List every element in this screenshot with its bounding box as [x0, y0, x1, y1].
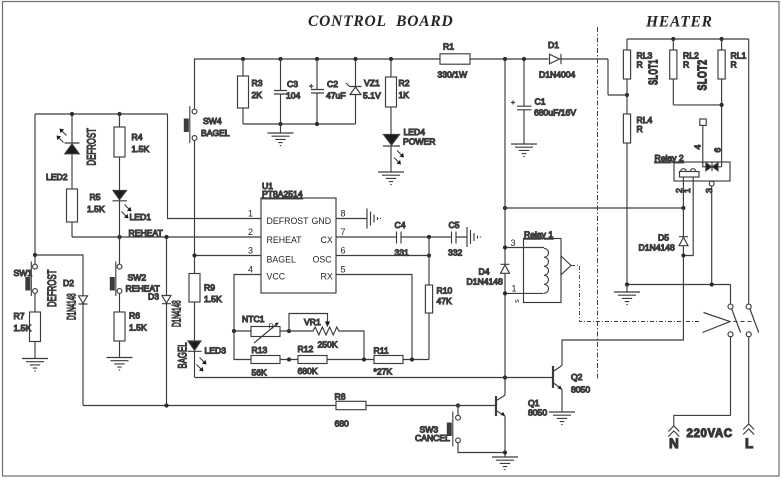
svg-text:D5: D5	[658, 233, 669, 243]
wire U1 pin5 RX	[336, 275, 412, 360]
resistor R11	[374, 346, 430, 377]
svg-text:LED3: LED3	[205, 346, 227, 356]
op-amp U1 PT8A2514 box	[261, 181, 336, 293]
svg-text:DEFROST: DEFROST	[86, 128, 99, 165]
relay2 contact arrows	[703, 126, 722, 171]
terminal N	[668, 415, 730, 451]
node bus junction dots	[241, 57, 629, 97]
svg-text:R6: R6	[129, 311, 140, 321]
svg-text:R11: R11	[374, 346, 389, 356]
diode D3	[148, 237, 171, 406]
svg-text:8050: 8050	[528, 408, 547, 418]
diode D2	[35, 255, 88, 406]
ground (Q1 emitter)	[492, 453, 518, 470]
wire left feed line	[35, 114, 168, 255]
svg-text:R13: R13	[252, 345, 268, 355]
svg-text:R: R	[731, 60, 737, 70]
svg-text:s: s	[512, 299, 521, 303]
resistor RL4	[623, 95, 652, 285]
ground (pin8, sideways)	[367, 209, 381, 229]
resistor R3	[238, 59, 263, 124]
ground (supply rail)	[268, 124, 294, 146]
svg-text:8: 8	[341, 209, 346, 219]
svg-text:2: 2	[248, 227, 253, 237]
wire top supply bus	[196, 59, 627, 95]
svg-text:DEFROST: DEFROST	[267, 216, 310, 226]
LED2	[46, 114, 80, 189]
svg-text:6: 6	[341, 246, 346, 256]
svg-text:1.5K: 1.5K	[204, 294, 222, 304]
svg-text:*27K: *27K	[374, 367, 393, 377]
switch SW4	[184, 59, 230, 254]
wire +V column x=505	[504, 59, 506, 395]
relay1 coil	[505, 248, 549, 294]
svg-text:VCC: VCC	[267, 272, 286, 282]
svg-text:Q2: Q2	[571, 372, 583, 382]
svg-text:8050: 8050	[571, 385, 590, 395]
svg-text:R: R	[637, 60, 643, 70]
svg-text:SLOT1: SLOT1	[646, 59, 661, 85]
svg-text:LED4: LED4	[404, 127, 426, 137]
svg-text:POWER: POWER	[403, 137, 435, 147]
resistor R13	[251, 345, 298, 378]
svg-text:Q1: Q1	[528, 398, 540, 408]
wire Q2 base line	[195, 377, 553, 379]
svg-text:7: 7	[341, 227, 346, 237]
relay1 actuator triangle	[561, 256, 571, 275]
svg-text:N: N	[669, 436, 679, 451]
svg-text:1.5K: 1.5K	[129, 323, 147, 333]
svg-text:R8: R8	[335, 392, 346, 402]
svg-text:R: R	[683, 60, 689, 70]
svg-text:47uF: 47uF	[326, 91, 346, 101]
svg-text:R3: R3	[252, 78, 263, 88]
svg-text:1: 1	[248, 209, 253, 219]
svg-text:D1N4148: D1N4148	[66, 293, 78, 320]
svg-text:BAGEL: BAGEL	[177, 342, 190, 368]
capacitor C5	[429, 220, 467, 258]
svg-text:R2: R2	[399, 78, 410, 88]
svg-text:2K: 2K	[252, 90, 263, 100]
diode D4	[467, 248, 510, 294]
svg-text:C3: C3	[287, 79, 298, 89]
svg-text:CANCEL: CANCEL	[415, 433, 450, 443]
svg-text:SW4: SW4	[203, 116, 222, 126]
svg-text:1.5K: 1.5K	[132, 144, 150, 154]
wire U1 pin3 BAGEL	[195, 255, 262, 257]
switch SW1	[14, 255, 38, 312]
svg-text:D4: D4	[479, 267, 490, 277]
ground (C5, sideways)	[467, 227, 481, 247]
svg-text:LED1: LED1	[130, 212, 152, 222]
terminal square relay2 pin4	[700, 119, 706, 125]
svg-text:L: L	[745, 436, 753, 451]
relay U2 Relay2 box	[655, 153, 731, 181]
svg-text:R5: R5	[90, 192, 101, 202]
svg-text:Relay 1: Relay 1	[524, 229, 553, 239]
wire relay2 coil to Q2 collector	[562, 256, 683, 366]
pin labels relay1	[511, 238, 522, 303]
wire VCC branch down to R13	[234, 331, 251, 360]
svg-text:CONTROL BOARD: CONTROL BOARD	[308, 13, 454, 30]
svg-text:D3: D3	[148, 292, 159, 302]
resistor R2	[386, 59, 410, 107]
wire U1 pin7 CX	[336, 236, 396, 238]
wire neutral rail	[627, 284, 731, 286]
svg-text:47K: 47K	[437, 296, 453, 306]
switch SW3	[415, 406, 505, 453]
svg-text:5: 5	[341, 265, 346, 275]
svg-text:GND: GND	[312, 216, 332, 226]
svg-text:4: 4	[248, 265, 253, 275]
diode D5	[639, 208, 689, 256]
svg-text:3: 3	[511, 238, 516, 248]
svg-text:BAGEL: BAGEL	[201, 128, 230, 138]
wire relay2 pin1	[684, 181, 694, 256]
svg-text:332: 332	[448, 248, 463, 258]
svg-text:HEATER: HEATER	[645, 14, 713, 31]
ground (C1)	[511, 144, 537, 157]
svg-text:D1N4004: D1N4004	[539, 70, 576, 80]
ground (R7)	[22, 342, 48, 372]
resistor R8	[335, 392, 367, 429]
board/heater dashed separator	[597, 27, 599, 379]
switch SW2	[110, 237, 161, 312]
capacitor C2	[309, 59, 346, 124]
resistor R5	[67, 189, 105, 237]
svg-text:R7: R7	[14, 311, 25, 321]
svg-text:BAGEL: BAGEL	[267, 255, 296, 265]
wire U1 pin8 GND	[336, 218, 367, 220]
svg-text:OSC: OSC	[313, 255, 333, 265]
wire heater top bus	[627, 38, 749, 40]
resistor RL3	[623, 39, 652, 95]
relay K1 Relay1 box	[524, 229, 562, 302]
svg-text:NTC1: NTC1	[242, 314, 265, 324]
svg-text:REHEAT: REHEAT	[129, 228, 164, 238]
wire U1 pin1 DEFROST	[168, 114, 262, 219]
svg-text:C1: C1	[535, 97, 546, 107]
ground (RL4 / neutral)	[614, 285, 640, 305]
svg-text:REHEAT: REHEAT	[267, 235, 303, 245]
thermistor NTC1	[234, 314, 289, 343]
switch DPST mains left pole	[728, 285, 741, 416]
resistor RL1	[718, 39, 746, 167]
relay2 pin3 circle	[709, 181, 714, 284]
svg-text:D1N4148: D1N4148	[171, 300, 183, 327]
svg-text:250K: 250K	[318, 340, 338, 350]
wire relay2 pin2	[682, 181, 684, 208]
svg-text:1K: 1K	[399, 90, 410, 100]
svg-text:3: 3	[704, 188, 714, 193]
svg-text:SW1: SW1	[14, 268, 33, 278]
diode D1	[539, 40, 576, 80]
svg-text:6: 6	[713, 148, 723, 153]
U1 pin numbers	[248, 209, 346, 275]
wire U1 pin4 VCC	[234, 275, 261, 332]
resistor R6	[114, 311, 147, 342]
svg-text:VR1: VR1	[304, 317, 321, 327]
wire U1 pin6 OSC	[336, 255, 429, 257]
svg-text:R12: R12	[298, 344, 314, 354]
resistor R10	[425, 237, 452, 360]
svg-text:R: R	[269, 322, 275, 331]
svg-text:R: R	[637, 124, 643, 134]
svg-text:PT8A2514: PT8A2514	[262, 189, 303, 199]
svg-text:R9: R9	[204, 283, 215, 293]
svg-text:5.1V: 5.1V	[363, 91, 381, 101]
svg-text:220VAC: 220VAC	[687, 428, 733, 440]
LED4	[383, 107, 435, 172]
svg-text:104: 104	[286, 91, 301, 101]
resistor R1	[438, 42, 471, 80]
svg-text:3: 3	[248, 246, 253, 256]
svg-text:SLOT2: SLOT2	[696, 59, 710, 90]
svg-text:R4: R4	[132, 132, 143, 142]
resistor R4	[114, 114, 149, 190]
resistor R9	[189, 256, 222, 342]
svg-text:CX: CX	[321, 235, 333, 245]
ground (R6)	[107, 341, 133, 370]
svg-text:Relay 2: Relay 2	[655, 153, 684, 163]
svg-text:1.5K: 1.5K	[14, 323, 32, 333]
relay2 coils	[680, 169, 700, 181]
capacitor C3	[274, 59, 301, 124]
svg-text:DEFROST: DEFROST	[47, 270, 60, 307]
svg-text:1.5K: 1.5K	[87, 204, 105, 214]
ground (Q2 emitter)	[549, 412, 575, 425]
svg-text:D2: D2	[63, 278, 74, 288]
svg-text:1: 1	[512, 284, 517, 294]
resistor RL2	[670, 39, 722, 105]
resistor R7	[14, 311, 41, 342]
wire U1 pin2 REHEAT	[72, 236, 261, 238]
potentiometer VR1	[289, 314, 364, 360]
transistor Q2	[553, 366, 590, 413]
svg-text:330/1W: 330/1W	[438, 70, 469, 80]
LED1	[113, 191, 164, 239]
svg-text:LED2: LED2	[46, 172, 68, 182]
ground (LED4)	[378, 172, 404, 185]
svg-text:R10: R10	[437, 286, 453, 296]
wire +V to relay2 (line A)	[505, 207, 683, 209]
switch link dashes	[734, 321, 754, 323]
switch DPST mains right pole	[746, 39, 759, 424]
node CX/OSC junction	[427, 235, 431, 258]
resistor R12	[298, 344, 375, 376]
svg-text:D1N4148: D1N4148	[467, 277, 504, 287]
capacitor C4	[395, 220, 430, 258]
relay actuator arrow	[703, 313, 731, 333]
wire ground rail under R3/C3/C2/VZ1	[243, 123, 356, 125]
transistor Q1	[496, 395, 547, 452]
svg-text:RX: RX	[321, 272, 333, 282]
svg-text:680: 680	[335, 419, 350, 429]
wire R8 rail	[83, 405, 496, 407]
svg-text:4: 4	[693, 145, 703, 150]
zener VZ1	[346, 59, 381, 124]
svg-text:C2: C2	[327, 79, 338, 89]
svg-text:C5: C5	[449, 220, 460, 230]
svg-text:C4: C4	[395, 220, 406, 230]
svg-text:R1: R1	[443, 42, 454, 52]
svg-text:SW2: SW2	[128, 273, 147, 283]
svg-text:D1N4148: D1N4148	[639, 243, 676, 253]
U1 internal labels	[267, 216, 333, 282]
svg-text:D1: D1	[548, 40, 559, 50]
LED3	[188, 341, 227, 378]
svg-text:680uF/16V: 680uF/16V	[534, 108, 576, 118]
svg-text:680K: 680K	[298, 366, 318, 376]
capacitor C1	[511, 59, 576, 144]
svg-text:VZ1: VZ1	[364, 78, 380, 88]
dash-dot link relay1 to switch	[571, 266, 701, 322]
terminal L	[743, 424, 754, 451]
svg-text:56K: 56K	[252, 368, 268, 378]
